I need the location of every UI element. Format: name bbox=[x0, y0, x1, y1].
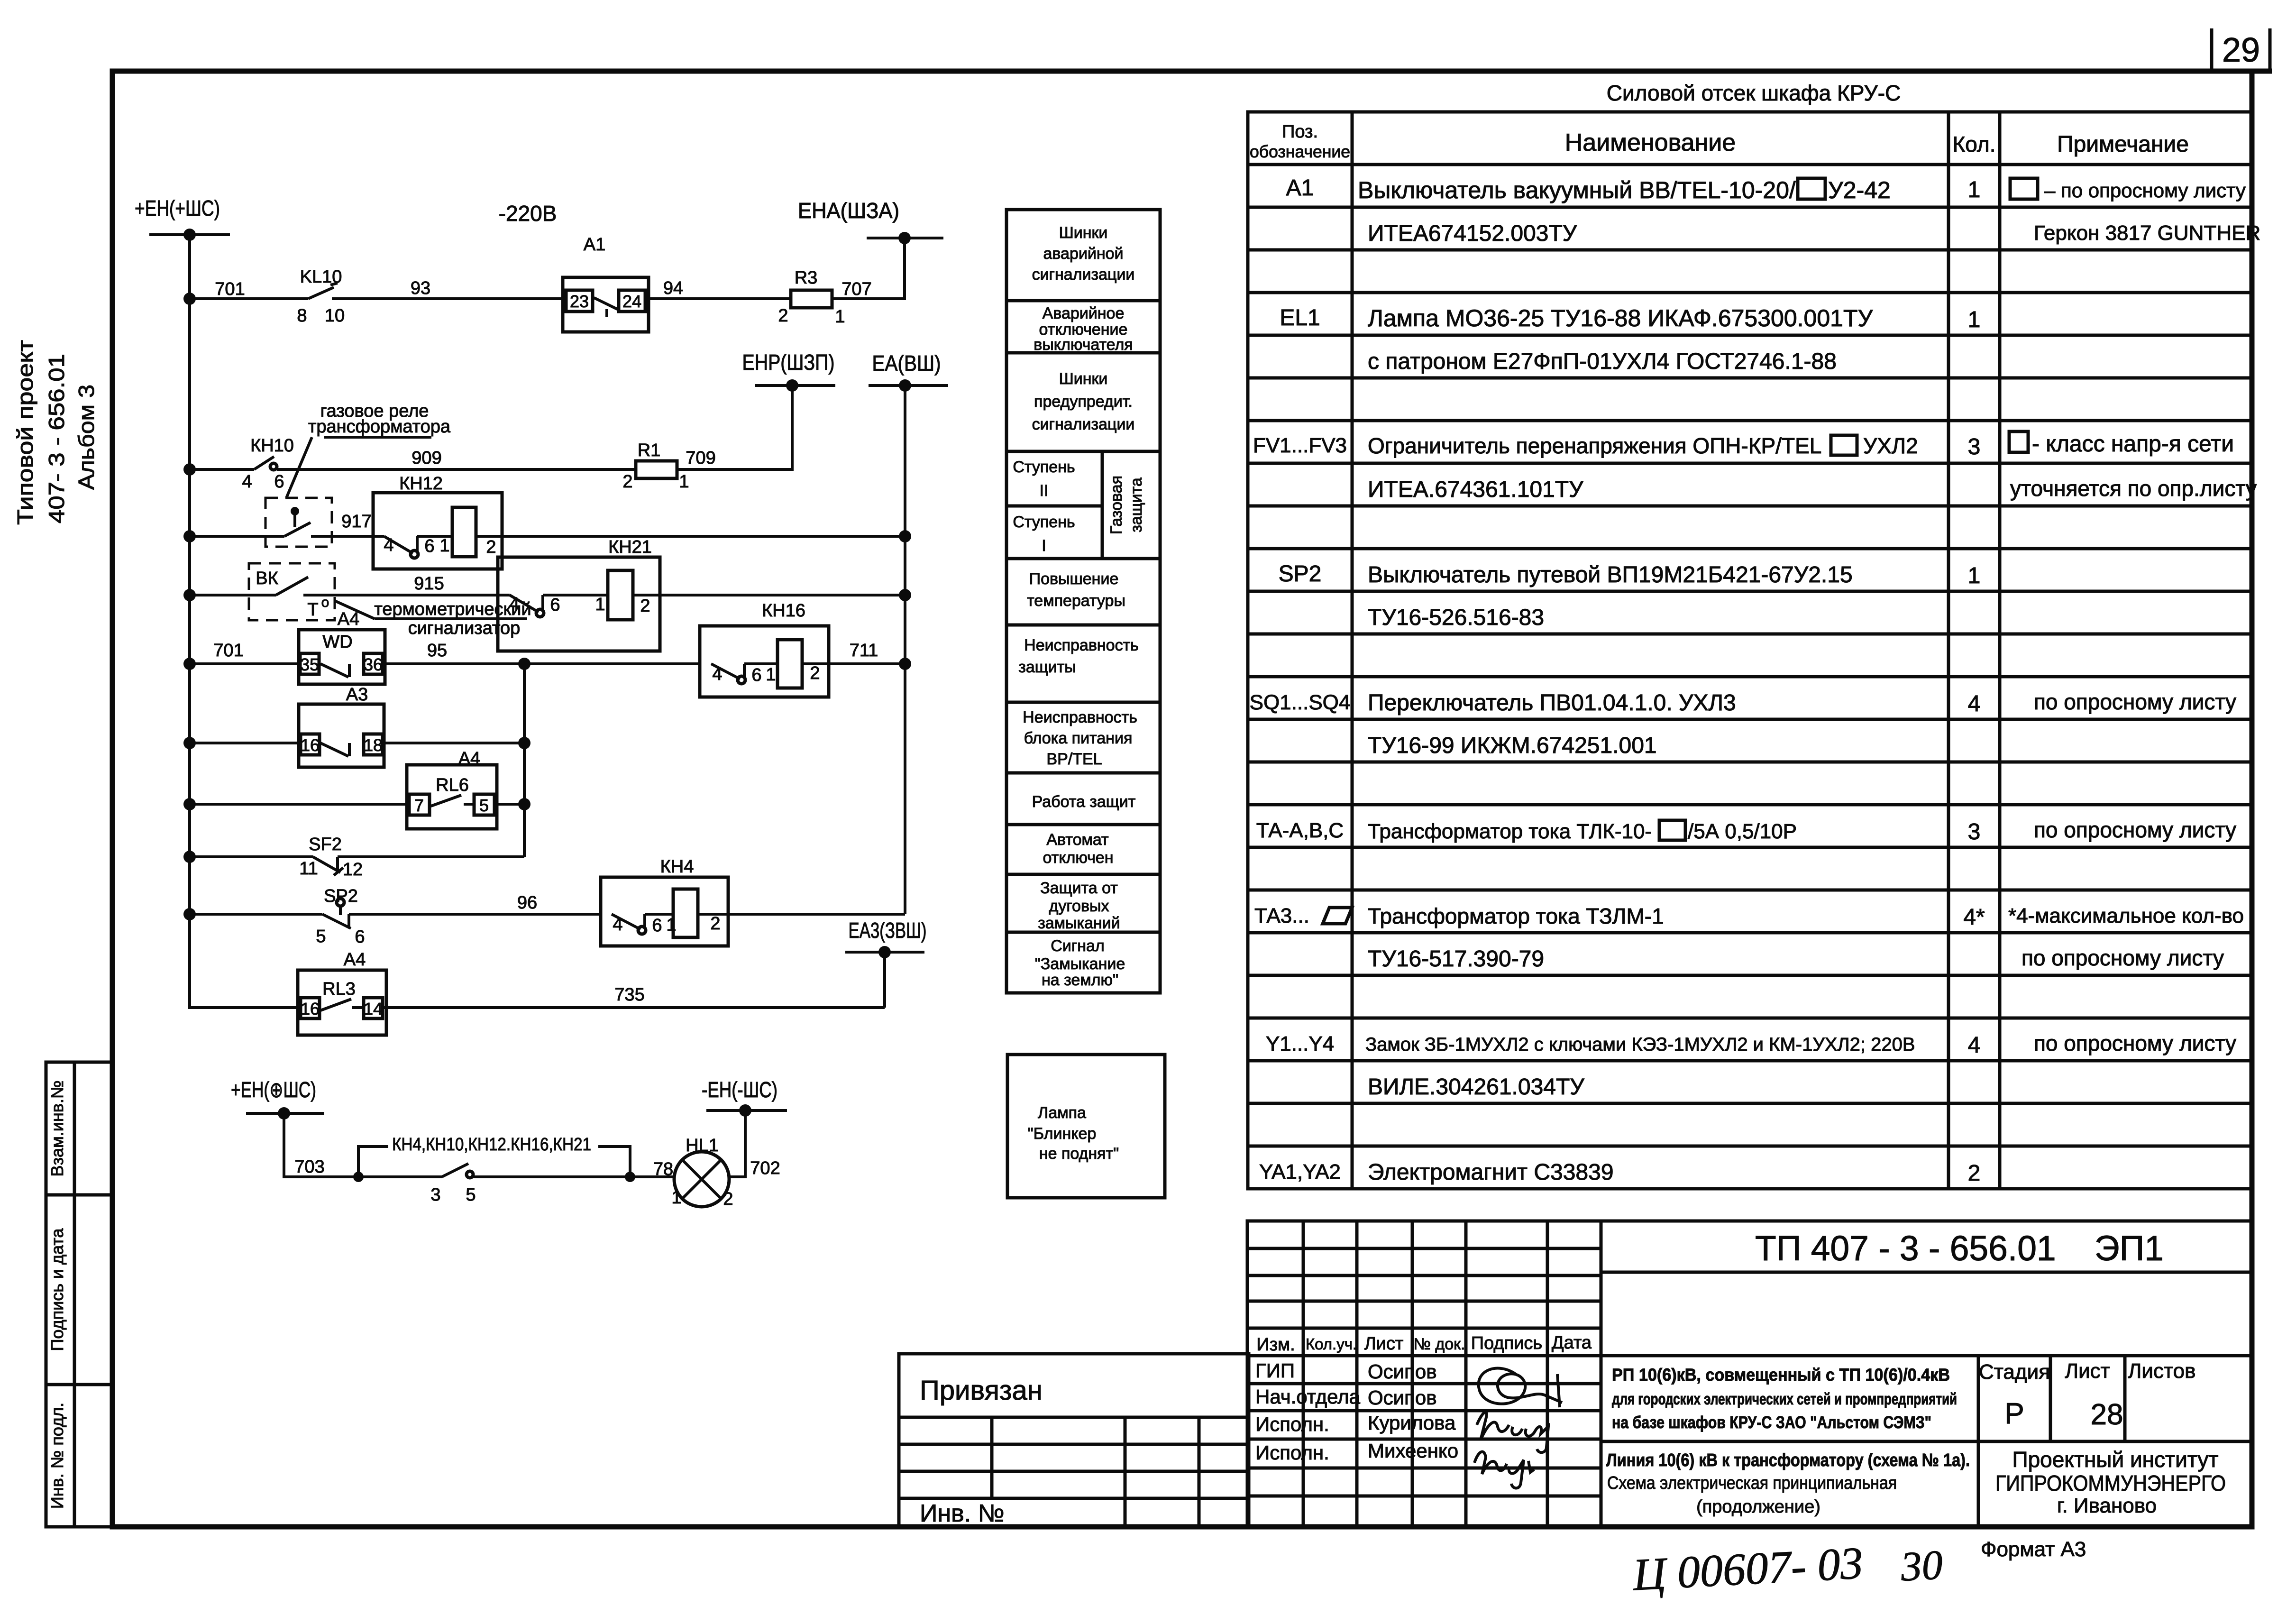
svg-text:4: 4 bbox=[509, 594, 519, 614]
title block grid bbox=[1247, 1221, 2252, 1527]
node junction 95/A3 vertical bbox=[518, 658, 531, 670]
svg-text:701: 701 bbox=[213, 641, 243, 661]
svg-text:SQ1...SQ4: SQ1...SQ4 bbox=[1250, 691, 1351, 714]
legend box Неисправность блока питания BP/TEL bbox=[1006, 702, 1160, 773]
svg-text:30: 30 bbox=[1899, 1542, 1944, 1590]
table row EL1 bbox=[1280, 305, 1980, 332]
svg-text:11: 11 bbox=[299, 859, 318, 879]
svg-text:R1: R1 bbox=[638, 440, 661, 460]
svg-text:+ЕН(+ШС): +ЕН(+ШС) bbox=[135, 196, 220, 220]
thermal contact BK (термометрический сигнализатор) dashed box bbox=[249, 563, 335, 620]
svg-text:2: 2 bbox=[1968, 1161, 1981, 1186]
svg-text:сигнализации: сигнализации bbox=[1032, 415, 1135, 433]
svg-text:г. Иваново: г. Иваново bbox=[2057, 1494, 2157, 1517]
svg-text:-220В: -220В bbox=[499, 201, 557, 226]
svg-text:6: 6 bbox=[652, 916, 662, 936]
svg-text:ИТЕА.674361.101ТУ: ИТЕА.674361.101ТУ bbox=[1368, 477, 1583, 502]
svg-text:*4-максимальное кол-во: *4-максимальное кол-во bbox=[2008, 904, 2244, 927]
svg-text:909: 909 bbox=[412, 448, 441, 468]
table row ТА-А,В,С bbox=[1256, 817, 2236, 844]
svg-text:5: 5 bbox=[479, 796, 489, 815]
svg-text:Защита от: Защита от bbox=[1040, 879, 1118, 897]
handwritten inventory number bbox=[1631, 1533, 1944, 1604]
svg-text:Михеенко: Михеенко bbox=[1368, 1440, 1458, 1462]
svg-text:1: 1 bbox=[439, 536, 449, 556]
svg-text:Лампа: Лампа bbox=[1038, 1104, 1086, 1122]
svg-text:4: 4 bbox=[242, 472, 252, 492]
svg-text:блока питания: блока питания bbox=[1024, 729, 1133, 747]
label термометрический сигнализатор with leader bbox=[335, 599, 531, 638]
limit switch SP2 bbox=[316, 886, 365, 947]
svg-text:А1: А1 bbox=[1286, 175, 1314, 201]
node EHP(ШЗП) bus tick bbox=[742, 350, 836, 392]
svg-text:5: 5 bbox=[466, 1185, 476, 1205]
svg-text:12: 12 bbox=[343, 860, 363, 880]
svg-text:уточняется по опр.листу: уточняется по опр.листу bbox=[2010, 476, 2257, 501]
svg-text:703: 703 bbox=[294, 1157, 324, 1177]
wire 711 bbox=[829, 662, 905, 665]
wire row9 right bbox=[728, 913, 905, 916]
svg-text:2: 2 bbox=[810, 663, 820, 683]
svg-text:2: 2 bbox=[710, 914, 720, 934]
resistor R1 bbox=[622, 440, 689, 492]
legend box Работа защит bbox=[1006, 773, 1160, 825]
svg-text:защиты: защиты bbox=[1018, 658, 1076, 676]
wire left bus vertical 400 bbox=[188, 235, 191, 1009]
table row ИТЕА.674361.101ТУ bbox=[1368, 476, 2257, 502]
svg-text:2: 2 bbox=[778, 306, 788, 326]
wire 96 bbox=[349, 913, 601, 916]
contact RL3 (block A4) bbox=[298, 950, 386, 1035]
svg-text:Осипов: Осипов bbox=[1368, 1360, 1437, 1383]
svg-text:Исполн.: Исполн. bbox=[1255, 1441, 1329, 1464]
title block sheet name bbox=[1606, 1450, 1970, 1517]
wire row4 left bbox=[190, 594, 276, 596]
svg-text:I: I bbox=[1042, 537, 1046, 555]
svg-text:16: 16 bbox=[301, 999, 320, 1018]
wire 94 bbox=[649, 297, 791, 300]
svg-text:КН16: КН16 bbox=[762, 601, 805, 621]
svg-text:14: 14 bbox=[364, 999, 383, 1018]
wire row3 left bbox=[190, 535, 284, 538]
relay KH16 bbox=[700, 601, 829, 697]
legend box Автомат отключен bbox=[1006, 825, 1160, 874]
svg-text:ЕА3(ЗВШ): ЕА3(ЗВШ) bbox=[849, 918, 927, 943]
svg-text:А4: А4 bbox=[338, 609, 359, 629]
svg-text:Подпись: Подпись bbox=[1471, 1333, 1542, 1353]
wire row4 right bbox=[660, 594, 905, 596]
svg-text:915: 915 bbox=[414, 574, 444, 594]
svg-text:RL6: RL6 bbox=[436, 775, 469, 795]
svg-text:1: 1 bbox=[1968, 177, 1981, 202]
table row SQ1...SQ4 bbox=[1250, 689, 2236, 716]
svg-text:709: 709 bbox=[686, 448, 715, 468]
wire row7 left bbox=[190, 803, 407, 806]
relay KH4 bbox=[601, 857, 728, 946]
node bus junction dots bbox=[183, 293, 196, 920]
svg-text:Электромагнит С33839: Электромагнит С33839 bbox=[1368, 1160, 1614, 1185]
table row ТУ16-99 ИКЖМ bbox=[1368, 733, 1657, 758]
svg-text:Курилова: Курилова bbox=[1368, 1412, 1456, 1434]
svg-text:407- 3 - 656.01: 407- 3 - 656.01 bbox=[44, 354, 69, 523]
svg-text:замыканий: замыканий bbox=[1038, 914, 1120, 932]
svg-text:917: 917 bbox=[341, 512, 371, 532]
legend box Повышение температуры bbox=[1006, 559, 1160, 625]
svg-text:Газовая: Газовая bbox=[1107, 476, 1125, 534]
svg-text:Шинки: Шинки bbox=[1059, 370, 1108, 388]
relay KH21 bbox=[498, 537, 660, 651]
svg-text:6: 6 bbox=[550, 595, 560, 615]
svg-text:4: 4 bbox=[712, 664, 722, 684]
svg-text:4: 4 bbox=[613, 915, 622, 935]
svg-text:4: 4 bbox=[1968, 691, 1981, 716]
svg-text:28: 28 bbox=[2091, 1398, 2123, 1431]
svg-text:Линия 10(6) кВ к трансформатор: Линия 10(6) кВ к трансформатору (схема №… bbox=[1606, 1450, 1970, 1470]
wire 917 bbox=[332, 535, 373, 538]
svg-text:Осипов: Осипов bbox=[1368, 1386, 1437, 1409]
svg-text:Лист: Лист bbox=[1364, 1334, 1404, 1354]
svg-text:- класс напр-я сети: - класс напр-я сети bbox=[2032, 431, 2234, 457]
title block project name bbox=[1612, 1365, 1957, 1432]
svg-text:Переключатель ПВ01.04.1.0. УХЛ: Переключатель ПВ01.04.1.0. УХЛ3 bbox=[1368, 690, 1736, 716]
svg-text:КН12: КН12 bbox=[399, 474, 443, 494]
svg-text:по опросному листу: по опросному листу bbox=[2022, 945, 2224, 970]
table row A1 bbox=[1286, 175, 2246, 203]
svg-text:Исполн.: Исполн. bbox=[1255, 1413, 1329, 1435]
svg-text:6: 6 bbox=[751, 665, 761, 685]
svg-text:Автомат: Автомат bbox=[1046, 831, 1108, 849]
wire 735 bbox=[383, 1006, 885, 1009]
title block names bbox=[1255, 1359, 1458, 1464]
svg-text:6: 6 bbox=[274, 472, 284, 492]
svg-text:по опросному листу: по опросному листу bbox=[2034, 689, 2236, 714]
svg-text:для городских электрических се: для городских электрических сетей и пром… bbox=[1612, 1390, 1957, 1408]
svg-text:Наименование: Наименование bbox=[1565, 129, 1736, 156]
contact KH10 bbox=[242, 436, 294, 492]
svg-text:Поз.: Поз. bbox=[1282, 122, 1318, 142]
svg-text:SF2: SF2 bbox=[309, 835, 342, 854]
wire mid vertical 1106 bbox=[523, 664, 526, 857]
wire row9 left bbox=[190, 913, 322, 916]
legend box Шинки предупредит. сигнализации bbox=[1006, 353, 1160, 451]
wire row6 right bbox=[384, 742, 524, 744]
svg-text:ТА3...: ТА3... bbox=[1254, 904, 1309, 927]
svg-text:RL3: RL3 bbox=[322, 979, 356, 999]
svg-text:Трансформатор тока ТЛК-10-: Трансформатор тока ТЛК-10- bbox=[1368, 820, 1652, 843]
svg-text:Нач.отдела: Нач.отдела bbox=[1255, 1385, 1361, 1408]
resistor R3 bbox=[778, 268, 845, 327]
svg-text:ЕНР(ШЗП): ЕНР(ШЗП) bbox=[742, 350, 835, 375]
node EA(ВШ) bus tick bbox=[869, 351, 948, 392]
svg-text:702: 702 bbox=[750, 1158, 780, 1178]
svg-text:Неисправность: Неисправность bbox=[1024, 636, 1139, 654]
wire row6 left bbox=[190, 742, 301, 744]
svg-text:94: 94 bbox=[663, 278, 683, 298]
node EHA(ШЗА) bus tick bbox=[798, 198, 943, 244]
svg-text:Повышение: Повышение bbox=[1029, 570, 1119, 588]
svg-text:711: 711 bbox=[850, 641, 878, 661]
wire 701 row5 left bbox=[190, 662, 299, 665]
table row YA1,YA2 bbox=[1259, 1160, 1980, 1186]
svg-text:Альбом 3: Альбом 3 bbox=[74, 385, 99, 490]
svg-text:Ступень: Ступень bbox=[1013, 513, 1075, 531]
svg-text:ЕНА(ШЗА): ЕНА(ШЗА) bbox=[798, 198, 899, 223]
svg-text:35: 35 bbox=[300, 655, 319, 674]
svg-text:Силовой отсек шкафа КРУ-С: Силовой отсек шкафа КРУ-С bbox=[1607, 81, 1901, 105]
table row ТУ16-517.390-79 bbox=[1368, 945, 2224, 972]
svg-text:Т: Т bbox=[307, 600, 318, 620]
svg-text:1: 1 bbox=[1968, 563, 1981, 588]
svg-text:Выключатель путевой ВП19М21Б42: Выключатель путевой ВП19М21Б421-67У2.15 bbox=[1368, 562, 1853, 587]
svg-text:EL1: EL1 bbox=[1280, 305, 1320, 330]
svg-text:29: 29 bbox=[2222, 31, 2260, 69]
svg-text:Y1...Y4: Y1...Y4 bbox=[1266, 1032, 1334, 1055]
svg-text:Ограничитель перенапряжения ОП: Ограничитель перенапряжения ОПН-КР/TEL bbox=[1368, 433, 1821, 458]
svg-text:КН4: КН4 bbox=[660, 857, 694, 877]
svg-text:735: 735 bbox=[614, 985, 644, 1005]
svg-text:У2-42: У2-42 bbox=[1828, 177, 1891, 203]
svg-text:А1: А1 bbox=[584, 235, 605, 255]
table row Y1...Y4 bbox=[1266, 1031, 2236, 1058]
legend box Аварийное отключение выключателя bbox=[1006, 301, 1160, 354]
svg-text:R3: R3 bbox=[795, 268, 818, 288]
wire row10 left bbox=[190, 1006, 301, 1009]
svg-text:Инв. № подл.: Инв. № подл. bbox=[47, 1403, 67, 1509]
legend box Неисправность защиты bbox=[1006, 625, 1160, 702]
label газовое реле трансформатора with leader bbox=[286, 401, 451, 498]
table row ТУ16-526.516-83 bbox=[1368, 605, 1544, 630]
svg-text:ТА-А,В,С: ТА-А,В,С bbox=[1256, 819, 1344, 842]
svg-text:Лист: Лист bbox=[2065, 1359, 2110, 1383]
table row ТА3 bbox=[1254, 904, 2244, 930]
svg-text:16: 16 bbox=[301, 735, 320, 755]
watchdog contact block WD (A4) bbox=[299, 630, 385, 684]
contact RL6 (block A4) bbox=[407, 749, 497, 829]
svg-text:707: 707 bbox=[842, 279, 871, 299]
table row SP2 bbox=[1279, 561, 1981, 588]
svg-text:с патроном Е27ФпП-01УХЛ4 ГОСТ: с патроном Е27ФпП-01УХЛ4 ГОСТ2746.1-88 bbox=[1368, 349, 1837, 374]
svg-text:(продолжение): (продолжение) bbox=[1696, 1497, 1820, 1517]
svg-text:8: 8 bbox=[297, 306, 307, 326]
left margin box Инв. № подл. bbox=[46, 1385, 112, 1527]
svg-text:ТУ16-517.390-79: ТУ16-517.390-79 bbox=[1368, 946, 1544, 972]
svg-text:на базе шкафов КРУ-С ЗАО "Альс: на базе шкафов КРУ-С ЗАО "Альстом СЭМЗ" bbox=[1612, 1413, 1931, 1432]
svg-text:Геркон 3817 GUNTHER: Геркон 3817 GUNTHER bbox=[2034, 221, 2260, 245]
legend box Ступень II / Ступень I / Газовая защита bbox=[1006, 451, 1160, 559]
svg-text:1: 1 bbox=[1968, 307, 1981, 332]
svg-text:3: 3 bbox=[430, 1185, 440, 1205]
svg-text:РП 10(6)кВ, совмещенный с ТП 1: РП 10(6)кВ, совмещенный с ТП 10(6)/0.4кВ bbox=[1612, 1365, 1950, 1385]
svg-text:SP2: SP2 bbox=[324, 886, 358, 906]
svg-text:7: 7 bbox=[414, 796, 424, 815]
left margin rotated stamp text: Типовой проект 407-3-656.01 Альбом 3 bbox=[13, 340, 99, 525]
svg-text:ТУ16-526.516-83: ТУ16-526.516-83 bbox=[1368, 605, 1544, 630]
svg-text:Работа защит: Работа защит bbox=[1032, 793, 1136, 811]
svg-text:1: 1 bbox=[666, 915, 676, 935]
node +EH(+ШС) lamp circuit tick bbox=[231, 1077, 324, 1119]
svg-text:HL1: HL1 bbox=[686, 1136, 719, 1156]
svg-text:3: 3 bbox=[1968, 819, 1981, 844]
svg-text:ГИП: ГИП bbox=[1255, 1359, 1295, 1382]
svg-text:Кол.уч.: Кол.уч. bbox=[1306, 1335, 1357, 1353]
wire 909 bbox=[277, 468, 636, 471]
node -EH(-ШС) tick bbox=[702, 1077, 787, 1117]
wire 915 bbox=[335, 594, 498, 596]
title block Стадия Лист Листов bbox=[1979, 1359, 2195, 1431]
svg-text:Сигнал: Сигнал bbox=[1051, 937, 1104, 955]
contact KL10 bbox=[297, 267, 345, 326]
table row ВИЛЕ.304261.034ТУ bbox=[1368, 1074, 1584, 1100]
svg-text:КН10: КН10 bbox=[250, 436, 294, 456]
svg-text:А3: А3 bbox=[346, 685, 368, 705]
svg-text:96: 96 bbox=[517, 893, 537, 913]
svg-text:сигнализации: сигнализации bbox=[1032, 266, 1135, 284]
svg-text:обозначение: обозначение bbox=[1250, 142, 1350, 161]
svg-text:1: 1 bbox=[766, 665, 776, 685]
gas relay contact (газовое реле) dashed box bbox=[265, 498, 332, 547]
svg-text:ТП 407 - 3 - 656.01 ЭП1: ТП 407 - 3 - 656.01 ЭП1 bbox=[1755, 1229, 2164, 1268]
svg-text:Привязан: Привязан bbox=[920, 1375, 1043, 1406]
left margin box Подпись и дата bbox=[46, 1195, 112, 1385]
svg-text:FV1...FV3: FV1...FV3 bbox=[1253, 434, 1347, 457]
svg-text:Взам.инв.№: Взам.инв.№ bbox=[47, 1080, 67, 1176]
title block institute bbox=[1995, 1447, 2226, 1517]
svg-text:95: 95 bbox=[427, 641, 447, 661]
signature scribbles bbox=[1474, 1368, 1562, 1488]
table row с патроном bbox=[1368, 349, 1837, 374]
wire 709 bbox=[677, 385, 792, 469]
svg-text:2: 2 bbox=[723, 1189, 733, 1209]
node junction KH group bracket left bbox=[353, 1172, 364, 1182]
wire row7 right bbox=[494, 803, 524, 806]
svg-text:выключателя: выключателя bbox=[1034, 336, 1133, 354]
table header texts bbox=[1250, 122, 2189, 161]
svg-text:"Замыкание: "Замыкание bbox=[1035, 955, 1125, 973]
svg-text:по опросному листу: по опросному листу bbox=[2034, 1031, 2236, 1055]
svg-text:Изм.: Изм. bbox=[1256, 1335, 1295, 1355]
svg-text:Примечание: Примечание bbox=[2057, 132, 2189, 157]
svg-text:КН21: КН21 bbox=[608, 537, 652, 557]
svg-text:1: 1 bbox=[679, 472, 689, 492]
svg-text:аварийной: аварийной bbox=[1043, 245, 1123, 263]
node EA3(ЗВШ) bus tick bbox=[845, 918, 927, 1008]
table row ИТЕА674152.003ТУ bbox=[1368, 221, 2260, 246]
svg-text:Схема электрическая принципиал: Схема электрическая принципиальная bbox=[1607, 1473, 1897, 1493]
svg-text:1: 1 bbox=[595, 595, 605, 615]
svg-text:36: 36 bbox=[364, 655, 383, 674]
svg-text:2: 2 bbox=[640, 596, 650, 616]
svg-text:"Блинкер: "Блинкер bbox=[1028, 1125, 1097, 1143]
svg-text:Выключатель вакуумный ВВ/TEL-1: Выключатель вакуумный ВВ/TEL-10-20/ bbox=[1358, 177, 1796, 203]
svg-text:о: о bbox=[321, 595, 329, 610]
wire 95 bbox=[385, 662, 700, 665]
table row FV1...FV3 bbox=[1253, 431, 2234, 459]
svg-text:Дата: Дата bbox=[1552, 1333, 1592, 1353]
legend box Шинки аварийной сигнализации bbox=[1006, 210, 1160, 301]
svg-text:1: 1 bbox=[835, 307, 845, 327]
svg-text:трансформатора: трансформатора bbox=[308, 417, 451, 437]
relay KH12 bbox=[373, 474, 502, 569]
svg-text:BP/TEL: BP/TEL bbox=[1046, 750, 1102, 768]
svg-text:Подпись и дата: Подпись и дата bbox=[47, 1228, 67, 1351]
svg-text:2: 2 bbox=[622, 472, 632, 492]
breaker contact SF2 bbox=[299, 835, 363, 880]
svg-text:защита: защита bbox=[1127, 477, 1145, 532]
parts list table grid bbox=[1248, 112, 2252, 1189]
svg-text:сигнализатор: сигнализатор bbox=[408, 618, 521, 638]
svg-text:YA1,YA2: YA1,YA2 bbox=[1259, 1160, 1341, 1184]
svg-text:24: 24 bbox=[622, 292, 641, 311]
svg-text:Трансформатор тока ТЗЛМ-1: Трансформатор тока ТЗЛМ-1 bbox=[1368, 904, 1664, 928]
left margin box Взам.инв.№ bbox=[46, 1062, 112, 1195]
legend box Защита от дуговых замыканий bbox=[1006, 874, 1160, 932]
svg-text:6: 6 bbox=[424, 536, 434, 556]
svg-text:Замок ЗБ-1МУХЛ2 с ключами КЭЗ-: Замок ЗБ-1МУХЛ2 с ключами КЭЗ-1МУХЛ2 и К… bbox=[1365, 1034, 1915, 1055]
svg-text:WD: WD bbox=[322, 632, 352, 652]
label КН4,КН10,КН12.КН16,КН21 bracket bbox=[358, 1135, 630, 1177]
svg-text:А4: А4 bbox=[344, 950, 366, 970]
svg-text:на землю": на землю" bbox=[1042, 971, 1118, 989]
breaker aux block A1 bbox=[563, 235, 649, 332]
svg-text:Кол.: Кол. bbox=[1953, 132, 1996, 156]
wire 707 bbox=[832, 238, 905, 299]
svg-text:Формат А3: Формат А3 bbox=[1981, 1538, 2086, 1561]
wire row2 left bbox=[190, 468, 254, 471]
svg-text:KL10: KL10 bbox=[300, 267, 342, 287]
svg-text:А4: А4 bbox=[458, 749, 480, 769]
svg-text:по опросному листу: по опросному листу bbox=[2034, 817, 2236, 842]
svg-text:ИТЕА674152.003ТУ: ИТЕА674152.003ТУ bbox=[1368, 221, 1577, 246]
svg-text:термометрический: термометрический bbox=[374, 599, 531, 619]
svg-text:ТУ16-99 ИКЖМ.674251.001: ТУ16-99 ИКЖМ.674251.001 bbox=[1368, 733, 1657, 758]
svg-text:Ступень: Ступень bbox=[1013, 458, 1075, 476]
svg-text:4: 4 bbox=[1968, 1033, 1981, 1058]
svg-text:Неисправность: Неисправность bbox=[1023, 708, 1137, 726]
svg-text:Лампа МО36-25 ТУ16-88 ИКАФ.675: Лампа МО36-25 ТУ16-88 ИКАФ.675300.001ТУ bbox=[1368, 305, 1873, 331]
wire row8 right bbox=[338, 855, 524, 858]
svg-text:Аварийное: Аварийное bbox=[1043, 304, 1125, 322]
svg-text:Стадия: Стадия bbox=[1979, 1360, 2050, 1384]
svg-text:4*: 4* bbox=[1963, 905, 1985, 930]
legend box Сигнал Замыкание на землю bbox=[1006, 932, 1160, 993]
svg-text:10: 10 bbox=[325, 306, 345, 326]
svg-text:отключен: отключен bbox=[1043, 849, 1114, 867]
lamp HL1 bbox=[671, 1136, 733, 1209]
contact KH group 3-5 bbox=[430, 1164, 476, 1205]
wire row8 left bbox=[190, 855, 313, 858]
page number box 29 bbox=[2212, 28, 2272, 71]
svg-text:– по опросному листу: – по опросному листу bbox=[2044, 179, 2246, 202]
svg-text:предупредит.: предупредит. bbox=[1034, 393, 1133, 411]
Привязан box bbox=[899, 1354, 1249, 1527]
svg-text:ВИЛЕ.304261.034ТУ: ВИЛЕ.304261.034ТУ bbox=[1368, 1074, 1584, 1100]
wire 93 bbox=[332, 297, 563, 300]
wire 703 bbox=[284, 1113, 358, 1177]
svg-text:Типовой проект: Типовой проект bbox=[13, 340, 37, 525]
svg-text:3: 3 bbox=[1968, 434, 1981, 459]
svg-text:4: 4 bbox=[384, 535, 393, 555]
svg-text:Листов: Листов bbox=[2128, 1359, 2196, 1383]
svg-text:23: 23 bbox=[570, 292, 589, 311]
svg-text:II: II bbox=[1040, 482, 1049, 500]
svg-text:18: 18 bbox=[364, 735, 383, 755]
svg-text:дуговых: дуговых bbox=[1049, 897, 1109, 915]
svg-text:№ док.: № док. bbox=[1414, 1335, 1465, 1353]
legend box Лампа Блинкер не поднят bbox=[1007, 1055, 1165, 1198]
svg-text:1: 1 bbox=[671, 1188, 681, 1208]
svg-text:+ЕН(⊕ШС): +ЕН(⊕ШС) bbox=[231, 1077, 316, 1102]
wire 701 row1 bbox=[190, 297, 308, 300]
